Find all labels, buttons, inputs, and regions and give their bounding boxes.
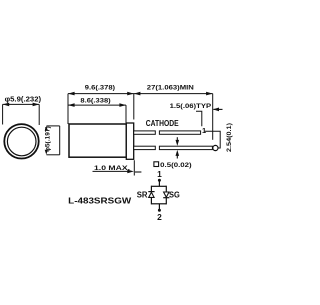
- svg-text:1: 1: [202, 126, 206, 135]
- svg-text:1.5(.06)TYP: 1.5(.06)TYP: [170, 103, 212, 110]
- diode SR (cathode up): [148, 192, 154, 198]
- LED side view body: [69, 124, 126, 157]
- extension line at flange right edge: [133, 94, 135, 120]
- svg-text:SG: SG: [169, 189, 180, 199]
- dimension 5.9 dim line with arrows: [3, 103, 40, 107]
- left branch wire upper: [150, 186, 152, 192]
- LED top view outer circle (flange 5.9mm): [4, 124, 38, 158]
- svg-text:L-483SRSGW: L-483SRSGW: [68, 196, 131, 205]
- wire pin1 to box top: [158, 180, 160, 186]
- schematic box top wire: [151, 185, 166, 187]
- right branch wire lower: [165, 198, 167, 205]
- svg-text:CATHODE: CATHODE: [146, 119, 179, 128]
- lead 1 (cathode, top) segment a: [134, 131, 156, 134]
- dimension 5.9(.232) label: [5, 96, 42, 103]
- svg-text:2: 2: [157, 212, 162, 222]
- dimension 5(.197) rotated label: [44, 126, 51, 152]
- lead thickness arrow upper: [176, 137, 180, 146]
- dimension 5.9 right extension line: [38, 104, 40, 125]
- svg-text:8.6(.338): 8.6(.338): [80, 98, 110, 105]
- lead 1 (cathode, top) segment b: [159, 131, 200, 134]
- svg-text:27(1.063)MIN: 27(1.063)MIN: [147, 84, 194, 91]
- dimension 2.54(0.1) rotated label: [226, 123, 233, 152]
- dimension 2.54 bracket: [205, 131, 220, 148]
- arrow at lead 2 end line: [213, 108, 223, 112]
- svg-text:2.54(0.1): 2.54(0.1): [226, 123, 233, 152]
- extension line at body left edge: [67, 94, 69, 124]
- wire box bottom to pin 2: [158, 204, 160, 210]
- dimension 5 bracket and arrows: [45, 126, 60, 155]
- extension line at body right edge: [125, 105, 127, 123]
- dimension 5.9 left extension line: [2, 104, 4, 124]
- svg-text:SR: SR: [137, 189, 149, 199]
- leader tail right of extension: [135, 171, 142, 173]
- LED top view inner circle (body 5mm): [7, 127, 36, 156]
- leader to lead 1 end: [196, 111, 202, 126]
- lead 2 (anode, bottom) segment a: [134, 146, 156, 149]
- lead 2 end loop: [213, 145, 218, 150]
- extension line at lead 2 end: [212, 94, 214, 140]
- schematic pin 2 terminal dot: [158, 209, 161, 212]
- dimension line 9.6 / 27 shared: [68, 92, 213, 96]
- dimension 1.0 leader with arrow: [93, 170, 134, 174]
- lead thickness arrow lower: [176, 150, 180, 159]
- svg-text:1: 1: [157, 169, 162, 179]
- schematic pin 1 terminal dot: [158, 179, 161, 182]
- left branch wire lower: [150, 197, 152, 204]
- schematic box bottom wire: [151, 203, 166, 205]
- LED side view flange: [126, 123, 133, 159]
- svg-text:φ5.9(.232): φ5.9(.232): [5, 96, 42, 103]
- lead 2 (anode, bottom) segment b: [159, 146, 212, 149]
- square symbol of 0.5(0.02): [154, 162, 159, 167]
- extension line below flange: [133, 160, 135, 175]
- right branch wire upper: [165, 186, 167, 192]
- dimension line 8.6: [68, 103, 126, 107]
- diode SG (cathode down): [163, 192, 169, 198]
- svg-text:9.6(.378): 9.6(.378): [85, 85, 115, 92]
- svg-text:0.5(0.02): 0.5(0.02): [160, 162, 192, 169]
